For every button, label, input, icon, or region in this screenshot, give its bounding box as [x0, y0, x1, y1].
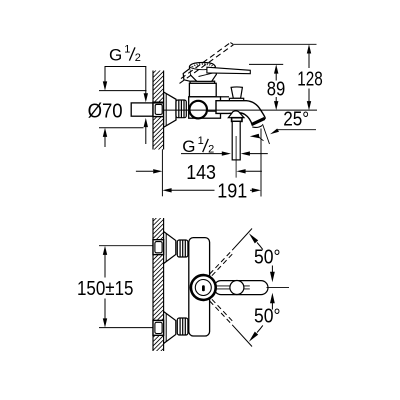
bottom union flange square	[153, 320, 164, 335]
faucet body upper view	[189, 81, 221, 118]
svg-text:1: 1	[198, 135, 204, 147]
50deg bottom arc arrow	[249, 332, 258, 342]
lever handle solid	[207, 67, 250, 74]
svg-text:1: 1	[124, 44, 130, 56]
dome knurl ticks	[192, 63, 213, 67]
bottom union ribbed nut	[177, 318, 188, 335]
lever neck circle	[230, 281, 244, 295]
lever capsule front view	[214, 281, 268, 295]
dim Ø70 arrows	[103, 81, 107, 136]
rotated lever dashed up	[210, 229, 252, 276]
diverter knob	[229, 87, 243, 101]
svg-text:Ø70: Ø70	[88, 100, 123, 122]
spout underside line	[208, 110, 233, 112]
svg-text:25°: 25°	[283, 109, 309, 131]
50deg top arc arrow	[249, 233, 258, 243]
raised lever dashed	[180, 43, 234, 84]
dim 143	[136, 170, 153, 172]
dim Ø70 extension lines	[99, 91, 147, 128]
top union flange square	[153, 240, 164, 255]
lever centerline right	[267, 286, 290, 288]
dome cap rim front edge	[189, 67, 215, 70]
big union circle upper	[189, 101, 207, 119]
lever stem lines	[216, 285, 250, 287]
G 1/2 label top-left	[109, 44, 141, 65]
tent transition under spout	[228, 111, 244, 121]
top union cone lower view	[164, 232, 176, 264]
50deg bottom lever-side arrow	[270, 293, 275, 304]
50deg top arc segment	[257, 243, 263, 250]
G1/2 label underline	[105, 66, 147, 68]
svg-text:G: G	[109, 46, 122, 65]
cartridge bold circle lower view	[191, 275, 216, 300]
cartridge dome cap	[189, 62, 216, 81]
wall face extension line	[161, 150, 163, 197]
keyhole mark	[202, 285, 205, 291]
svg-text:50°: 50°	[254, 306, 281, 328]
square nut on wall	[153, 102, 164, 116]
dim 89 extension line	[249, 63, 283, 65]
aerator bold band	[252, 118, 265, 124]
dim 128 top reference line	[234, 43, 317, 45]
G1/2 pipe pointer arrows at wall	[144, 93, 148, 127]
wall hatch lower view	[146, 200, 170, 375]
lever bottom edge over cap	[199, 73, 215, 77]
axis extension line	[164, 109, 317, 111]
svg-text:191: 191	[217, 181, 247, 203]
spout	[216, 101, 265, 125]
faucet body lower view	[189, 238, 210, 336]
svg-text:2: 2	[135, 52, 141, 64]
25deg angled face line	[263, 124, 270, 144]
top union ribbed nut	[177, 240, 188, 257]
spout root shoulder line	[221, 96, 230, 98]
50deg top lever-side arrow	[271, 266, 273, 273]
dim 89	[275, 73, 277, 102]
wall hatch upper view	[146, 52, 170, 175]
50deg bottom arc segment	[257, 325, 263, 332]
ribbed nut upper	[176, 100, 186, 118]
aerator lip	[252, 125, 262, 127]
lever hinge wedge	[183, 69, 190, 82]
svg-text:50°: 50°	[254, 247, 281, 269]
rotated lever dashed down	[210, 299, 252, 346]
outlet centerline	[235, 136, 237, 178]
dim 191	[162, 188, 261, 192]
supply pipe nipple	[131, 103, 153, 116]
svg-text:128: 128	[297, 68, 323, 90]
svg-text:150±15: 150±15	[77, 278, 134, 300]
25deg arrowheads	[250, 129, 279, 139]
escutcheon cone upper	[164, 92, 176, 127]
dim 128	[308, 53, 310, 102]
dim 150±15 extension lines	[99, 245, 153, 247]
bottom union cone lower view	[164, 312, 176, 344]
svg-text:143: 143	[186, 162, 216, 184]
G1/2 outlet leader + arrows	[181, 153, 222, 155]
shower outlet pipe down	[232, 121, 240, 159]
svg-text:89: 89	[267, 78, 286, 100]
G 1/2 label spout outlet	[182, 135, 214, 156]
spout tip extension line	[260, 129, 262, 197]
dim 150±15	[103, 246, 107, 328]
